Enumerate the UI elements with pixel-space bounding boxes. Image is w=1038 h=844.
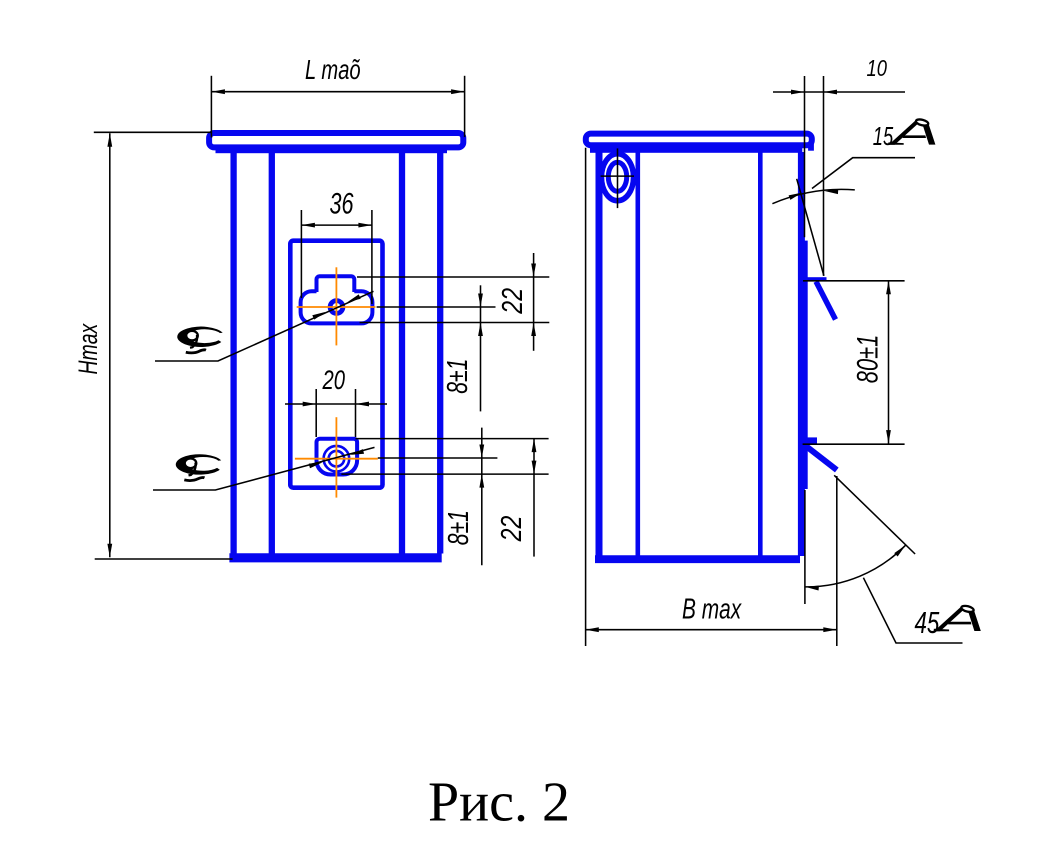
dimension 8±1 upper: [480, 285, 482, 411]
dimension 36: [300, 210, 302, 298]
dimension 22 upper: [533, 253, 535, 351]
svg-text:10: 10: [867, 56, 888, 81]
45 degree angle arc: [805, 545, 905, 587]
svg-text:Рис. 2: Рис. 2: [428, 772, 570, 834]
inner panel rectangle: [290, 241, 382, 488]
grommet inner: [608, 162, 626, 191]
cap right tab: [808, 143, 814, 151]
upper cutout extension lines: [357, 276, 549, 278]
svg-text:L maõ: L maõ: [305, 55, 361, 86]
right wall: [798, 152, 805, 556]
svg-text:20: 20: [322, 365, 346, 396]
dimension L max: [210, 76, 212, 138]
grommet center marks: [617, 148, 619, 208]
upper cutout outline: [301, 276, 373, 323]
lower hole leader: [153, 447, 375, 490]
inner wall 1: [635, 152, 640, 556]
top cap: [209, 133, 463, 147]
dimension Hmax: [94, 131, 212, 133]
lower flap: [807, 447, 837, 471]
bottom bar: [595, 555, 800, 563]
grommet outer: [602, 154, 634, 201]
upper crosshair: [335, 267, 337, 345]
dimension 22 lower: [533, 439, 535, 557]
upper hole leader: [155, 291, 374, 361]
label 45 with leader: [863, 578, 962, 643]
lower crosshair: [335, 417, 337, 497]
15 degree angle arc: [772, 189, 854, 203]
leg inner-left: [269, 150, 275, 554]
label 15 with leader: [812, 158, 915, 189]
svg-text:8±1: 8±1: [443, 510, 475, 545]
lower hole outer ring: [324, 446, 350, 472]
inner wall 2: [758, 152, 763, 556]
svg-text:45: 45: [915, 605, 941, 639]
svg-text:B max: B max: [682, 593, 742, 625]
left wall: [596, 152, 603, 556]
cap lip: [216, 150, 448, 153]
cap lip: [590, 148, 802, 153]
flap support plate: [804, 241, 808, 489]
upper hole: [330, 301, 343, 314]
dimension B max: [585, 629, 837, 631]
top cap: [586, 134, 812, 146]
leg inner-right: [399, 150, 405, 554]
B max left extension: [585, 148, 587, 646]
15 degree open flap line: [797, 179, 824, 276]
leg outer-right: [437, 150, 443, 554]
45 degree side line: [834, 475, 915, 554]
lower hole inner ring: [329, 451, 345, 467]
svg-text:36: 36: [330, 186, 354, 220]
upper flap: [816, 282, 836, 320]
dimension 8±1 lower: [481, 428, 483, 566]
extension below hinge: [804, 490, 806, 604]
svg-text:80±1: 80±1: [850, 335, 884, 384]
svg-text:22: 22: [495, 288, 528, 315]
B max right extension: [836, 476, 838, 646]
dimension 20: [315, 389, 317, 437]
upper diameter label: [177, 327, 222, 353]
lower cutout extension lines: [356, 438, 549, 440]
svg-text:8±1: 8±1: [442, 359, 474, 394]
lower diameter label: [176, 454, 221, 480]
dimension 80±1: [803, 280, 905, 282]
upper flap hinge: [803, 277, 827, 281]
leg outer-left: [230, 150, 236, 554]
svg-text:15: 15: [873, 122, 894, 151]
svg-text:22: 22: [494, 515, 527, 542]
lower cutout outline: [317, 439, 358, 475]
lower flap hinge: [803, 437, 818, 444]
svg-text:Hmax: Hmax: [73, 323, 103, 375]
bottom bar: [229, 553, 441, 562]
dimension 10: [804, 76, 806, 237]
